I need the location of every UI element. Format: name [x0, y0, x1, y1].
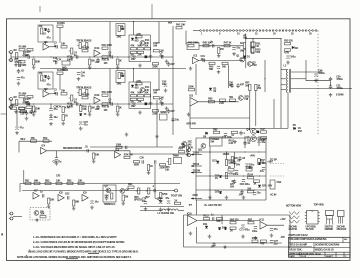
resistor R90 — [122, 195, 128, 201]
resistor R117 (ch1) — [153, 49, 163, 52]
svg-text:+40V: +40V — [250, 154, 256, 157]
ground c73 — [270, 234, 274, 238]
svg-text:1M: 1M — [13, 49, 16, 52]
svg-text:56K: 56K — [137, 45, 142, 48]
capacitor C110 (ch1) — [167, 62, 175, 67]
mixer box — [187, 43, 199, 50]
capacitor C200 (ch2) — [22, 98, 28, 105]
svg-text:B+ ADJ 470 50V: B+ ADJ 470 50V — [205, 204, 223, 207]
label b+ gnd2 — [189, 204, 193, 207]
svg-text:1K: 1K — [230, 229, 233, 232]
bias network box (ch2) — [38, 72, 53, 89]
svg-text:Q12: Q12 — [180, 146, 185, 149]
capacitor C207 (ch2) — [131, 103, 136, 108]
wire out v274 — [273, 99, 275, 128]
label rect board — [210, 138, 219, 144]
svg-text:220K: 220K — [152, 65, 158, 68]
capacitor C79 — [211, 213, 214, 220]
svg-text:BOTTOM VIEW: BOTTOM VIEW — [286, 206, 302, 208]
wire b+ v258 — [258, 136, 260, 146]
svg-text:47u: 47u — [165, 197, 170, 200]
note underline 5 — [66, 257, 78, 260]
resistor R110 — [252, 237, 258, 242]
svg-text:TO V2: TO V2 — [193, 163, 200, 166]
svg-text:10K: 10K — [56, 179, 61, 182]
IC pinout UPC1188 — [305, 211, 320, 232]
svg-text:C84 100u: C84 100u — [240, 183, 251, 186]
treble pot VR22 (ch2) — [76, 86, 86, 95]
svg-text:100u: 100u — [157, 197, 163, 200]
svg-text:R18 1K: R18 1K — [102, 58, 110, 61]
svg-text:IC10: IC10 — [187, 213, 193, 216]
capacitor C78 — [210, 242, 215, 248]
svg-text:50V: 50V — [230, 186, 235, 189]
capacitor C37 — [79, 121, 88, 127]
label right col a — [267, 160, 273, 163]
node b+ j1 — [209, 151, 259, 152]
svg-text:IC11: IC11 — [259, 219, 264, 222]
svg-text:R10 100K: R10 100K — [102, 91, 113, 94]
resistor R112 (ch1) — [117, 25, 124, 38]
svg-text:3. ALL VOLTAGES MEASURED WITH: 3. ALL VOLTAGES MEASURED WITH NO SIGNAL … — [33, 245, 116, 249]
wire drv v190 — [189, 106, 191, 128]
diode D3 — [209, 87, 217, 93]
wire eq signal — [47, 150, 130, 152]
wire drop x80 — [80, 104, 82, 106]
capacitor C65 — [152, 185, 155, 192]
diode D11 — [203, 223, 208, 228]
svg-text:4.7K: 4.7K — [57, 59, 62, 62]
switch cluster box (ch2) — [129, 82, 151, 109]
wire connector dashed — [199, 30, 318, 32]
resistor R210 (ch2) — [102, 91, 113, 96]
ground r92 — [159, 199, 163, 203]
ground b+ 3 — [242, 196, 246, 200]
svg-text:R65: R65 — [213, 128, 218, 131]
capacitor C30b — [155, 160, 156, 163]
resistor R107 (ch1) — [61, 43, 67, 48]
wire chain vert up — [23, 170, 25, 184]
svg-text:BASS: BASS — [85, 39, 92, 42]
ground c42a — [17, 82, 21, 86]
switch cluster box (ch1) — [129, 35, 151, 62]
resistor R216b (ch2) — [130, 98, 136, 103]
resistor R76 — [147, 165, 153, 171]
resistor R114 (ch1) — [130, 45, 136, 50]
svg-text:TITLE GA-30 AMP: TITLE GA-30 AMP — [289, 243, 307, 246]
capacitor C58 — [222, 133, 233, 139]
ground jack (ch1) — [14, 63, 18, 67]
ground c51 — [286, 61, 290, 65]
svg-text:IC1b: IC1b — [94, 47, 100, 50]
wire chain box left — [19, 184, 21, 193]
transistor pinout 2SD718 — [325, 211, 334, 232]
diode D2 — [292, 46, 299, 50]
diode D5 — [293, 124, 303, 133]
resistor R32 — [19, 107, 25, 109]
title block frame — [289, 237, 351, 257]
ground psu mid — [223, 245, 227, 249]
svg-text:R10 100K: R10 100K — [102, 44, 113, 47]
wire ch signal bus (ch2) — [11, 103, 152, 105]
input jack J2 (ch2) — [8, 98, 12, 109]
svg-text:56K: 56K — [11, 104, 16, 107]
svg-text:1S953: 1S953 — [223, 153, 230, 156]
capacitor C102 (ch1) — [47, 28, 52, 39]
wire vert x228 — [228, 65, 230, 88]
svg-text:REV: REV — [21, 138, 26, 141]
resistor R103 (ch1) — [33, 59, 41, 65]
wire ic3 out — [199, 60, 243, 62]
svg-text:1S: 1S — [213, 90, 216, 93]
svg-text:D23: D23 — [215, 190, 220, 193]
diode D1 — [243, 55, 250, 58]
svg-text:470K: 470K — [162, 193, 168, 196]
transistor Q5 power — [246, 136, 256, 142]
wire b+ top — [196, 137, 266, 139]
resistor R96 — [230, 227, 236, 232]
ground c72 — [254, 236, 258, 240]
note line 5 — [17, 255, 132, 259]
resistor R110 (ch1) — [102, 44, 113, 49]
capacitor C104 (ch1) — [74, 51, 78, 58]
resistor R211 (ch2) — [117, 106, 122, 112]
resistor R57 — [245, 82, 251, 91]
svg-text:-15V: -15V — [280, 236, 285, 239]
wire eq box top — [19, 140, 52, 142]
capacitor C30 — [140, 157, 145, 164]
capacitor C31m — [201, 55, 206, 62]
capacitor C74b — [142, 197, 147, 204]
title block line3a — [289, 250, 302, 252]
capacitor C36 — [49, 116, 58, 120]
capacitor C63 — [90, 201, 99, 204]
ground pot (ch1) — [70, 56, 74, 60]
svg-text:4.7K: 4.7K — [136, 33, 141, 36]
wire b+ left vert — [195, 138, 197, 200]
svg-text:R41 10K: R41 10K — [176, 24, 185, 27]
svg-text:1S: 1S — [84, 113, 87, 116]
svg-text:LED: LED — [148, 103, 153, 106]
svg-text:R112: R112 — [203, 215, 209, 218]
rectifier board box — [210, 137, 223, 146]
diode D14 — [224, 228, 227, 230]
resistor R71 — [31, 137, 37, 142]
svg-text:4.7K: 4.7K — [65, 107, 70, 110]
svg-text:1M: 1M — [125, 196, 128, 199]
wire drv h118 — [190, 117, 250, 119]
resistor R112 — [203, 215, 209, 220]
svg-text:R97: R97 — [248, 219, 253, 222]
svg-text:10K: 10K — [61, 90, 66, 93]
label right col b — [267, 184, 272, 187]
wire reverb to psu — [155, 164, 162, 202]
svg-text:470P: 470P — [22, 55, 28, 58]
svg-text:1M: 1M — [39, 72, 42, 75]
ground mid2 — [155, 135, 159, 139]
svg-text:D25: D25 — [262, 184, 267, 187]
wire psu feed upper — [140, 206, 184, 208]
ground pot (ch2) — [70, 103, 74, 107]
svg-text:+15V: +15V — [280, 218, 286, 221]
wire out h78 — [291, 78, 306, 80]
wire psu bottom — [184, 246, 291, 248]
svg-text:TANK: TANK — [173, 154, 180, 157]
ground r88 — [72, 207, 76, 211]
resistor R95 — [230, 219, 239, 224]
svg-text:MODEL GA-30 1/3: MODEL GA-30 1/3 — [315, 249, 334, 252]
ground c34 — [25, 117, 29, 121]
ground r11 (ch1) — [116, 66, 120, 70]
ground c36 — [49, 122, 53, 126]
svg-text:R95 220: R95 220 — [230, 219, 239, 222]
svg-text:1M: 1M — [27, 50, 30, 53]
ground c39 — [232, 52, 236, 56]
sheet zone tick top — [151, 4, 153, 19]
resistor R100 (ch1) — [27, 49, 33, 54]
capacitor C62 — [65, 193, 70, 200]
svg-text:100u: 100u — [233, 173, 239, 176]
op-amp IC2a (ch2) — [43, 88, 49, 97]
wire offboard b — [270, 175, 284, 177]
wire ch input vertical (ch2) — [10, 99, 12, 109]
diode D10 (ch1) — [43, 29, 47, 36]
resistor R45 — [203, 42, 212, 47]
wire b+ to psu — [196, 200, 198, 215]
wire psu right vert — [289, 215, 291, 247]
resistor R77 — [160, 164, 166, 170]
wire b+ v226.5 — [226, 152, 228, 160]
wire b+ v244 — [244, 136, 246, 148]
label psu plus — [280, 218, 286, 221]
wire bus tail (ch2) — [152, 103, 173, 105]
svg-text:APPR SCALE NONE DWG 130-52: APPR SCALE NONE DWG 130-52 — [289, 252, 321, 255]
resistor R202 (ch2) — [19, 93, 27, 98]
LED LD1 (ch1) — [145, 56, 153, 59]
capacitor C90 — [231, 179, 236, 184]
svg-text:10u: 10u — [201, 58, 206, 61]
wire choke bottom — [287, 93, 289, 129]
svg-text:IC2b: IC2b — [94, 94, 100, 97]
ground jack (ch2) — [14, 110, 18, 114]
svg-text:47K: 47K — [130, 92, 135, 95]
label b+ a — [229, 139, 235, 145]
resistor R93 — [40, 213, 46, 218]
wire drv out — [199, 101, 239, 103]
capacitor C201 (ch2) — [25, 98, 30, 106]
resistor R109 (ch1) — [89, 59, 96, 65]
wire ch signal bus (ch1) — [11, 56, 152, 58]
svg-text:47u: 47u — [21, 77, 26, 80]
resistor R66 — [231, 131, 237, 137]
svg-text:R55 220: R55 220 — [284, 40, 293, 43]
capacitor C101 (ch1) — [25, 51, 30, 59]
resistor R97 — [248, 219, 254, 224]
ground r76 — [147, 171, 151, 175]
resistor R74b — [116, 143, 122, 148]
capacitor C41a — [17, 69, 25, 74]
pot VR7 depth — [145, 188, 150, 199]
note line 4 — [29, 250, 139, 254]
svg-text:TOP VIEW: TOP VIEW — [314, 205, 325, 207]
wire pa h — [246, 38, 281, 40]
resistor R81c — [25, 179, 31, 184]
bass pot VR13 (ch1) — [84, 39, 92, 48]
fuse box F2 — [62, 61, 70, 72]
title block line4 — [289, 252, 321, 255]
svg-text:TREMOLO: TREMOLO — [104, 203, 116, 206]
capacitor C43a — [53, 57, 58, 64]
connection arrow tag 1 — [191, 151, 202, 155]
ground ic6 — [187, 113, 191, 117]
wire b+ h190 — [196, 189, 266, 191]
resistor R43 — [209, 62, 215, 71]
output choke L2 — [284, 65, 291, 93]
resistor R114 — [174, 199, 180, 204]
svg-text:100u: 100u — [290, 55, 296, 58]
wire opamp out (ch2) — [49, 93, 56, 95]
svg-text:1K: 1K — [240, 42, 243, 45]
wire psu top — [184, 214, 291, 216]
capacitor C75b — [157, 197, 163, 204]
resistor R101 (ch1) — [13, 49, 18, 59]
svg-text:R1 68K: R1 68K — [19, 46, 27, 49]
ground c28 — [55, 162, 59, 166]
capacitor C56 — [229, 81, 234, 88]
resistor R116b (ch1) — [130, 51, 136, 56]
svg-text:LED: LED — [148, 56, 153, 59]
ground c9 (ch2) — [165, 107, 169, 111]
volume pot VR11 (ch1) — [67, 48, 73, 61]
resistor R78 — [179, 148, 185, 153]
transistor Q1 — [236, 54, 244, 62]
ground ic10 — [189, 232, 193, 236]
ground sw (ch1) — [138, 64, 142, 68]
resistor R79 — [186, 146, 193, 152]
svg-text:GND: GND — [193, 194, 199, 197]
wire choke tap1 — [281, 78, 286, 80]
capacitor C76b — [165, 197, 170, 204]
svg-text:2.2K: 2.2K — [229, 142, 234, 145]
resistor R216c (ch2) — [137, 98, 143, 103]
op-amp IC3 — [193, 55, 199, 64]
svg-text:10P: 10P — [229, 84, 234, 87]
resistor R55 — [284, 40, 293, 45]
svg-text:56K: 56K — [240, 50, 245, 53]
connection arrow tag 4 — [191, 194, 202, 199]
wire sw vert b (ch2) — [158, 69, 160, 90]
resistor R212 (ch2) — [117, 72, 124, 85]
svg-text:FOOT SW: FOOT SW — [171, 195, 183, 198]
wire psu left vert — [183, 215, 185, 247]
svg-text:1M: 1M — [27, 97, 30, 100]
wire mid vertical (ch1) — [109, 22, 111, 57]
connection arrow tag 2 — [191, 163, 202, 167]
svg-text:50KB: 50KB — [62, 69, 68, 72]
wire chain tail — [105, 190, 174, 192]
label top view — [314, 205, 325, 207]
wire ch2 down v157 — [156, 100, 158, 147]
svg-text:56K: 56K — [75, 201, 80, 204]
svg-text:56K: 56K — [209, 68, 214, 71]
diode D31 — [79, 113, 86, 116]
wire b+ h152 — [196, 151, 266, 153]
svg-text:1K: 1K — [119, 60, 122, 63]
svg-text:10u: 10u — [131, 58, 136, 61]
svg-text:47K: 47K — [189, 147, 194, 150]
svg-text:R18 1K: R18 1K — [102, 105, 110, 108]
resistor R85 — [67, 179, 73, 184]
resistor R62 — [229, 96, 235, 101]
resistor R118 (ch1) — [102, 56, 110, 62]
svg-text:R 220K: R 220K — [57, 22, 65, 25]
wire fb vertical (ch2) — [59, 74, 61, 90]
ground input (ch1) — [32, 66, 36, 70]
ground r46 — [217, 54, 221, 58]
wire box drop (ch2) — [45, 89, 47, 91]
resistor R214 (ch2) — [130, 92, 136, 97]
bias network box (ch1) — [38, 25, 53, 42]
capacitor C50b — [329, 84, 343, 90]
capacitor C83 — [233, 159, 241, 165]
ground r73 — [92, 160, 96, 164]
svg-text:NO.: NO. — [344, 239, 348, 241]
input jack J1 (ch1) — [8, 51, 12, 62]
wire mixer down — [195, 64, 197, 95]
resistor R108 — [228, 166, 234, 171]
note triangle 5 — [25, 255, 28, 258]
svg-text:4. NO LOAD CIRCUIT. FLYWHEEL B: 4. NO LOAD CIRCUIT. FLYWHEEL BRIDGE RATE… — [29, 250, 139, 254]
svg-text:PARTS LIST 130-52: PARTS LIST 130-52 — [289, 234, 309, 237]
resistor R67 — [258, 159, 266, 165]
capacitor C38 — [210, 40, 214, 47]
svg-text:10K: 10K — [61, 43, 66, 46]
svg-text:10u: 10u — [162, 83, 167, 86]
resistor R201 (ch2) — [13, 96, 18, 106]
wire fb vertical (ch1) — [59, 27, 61, 43]
resistor R59 — [188, 86, 194, 91]
resistor R219 (ch2) — [152, 110, 158, 116]
svg-text:SCHEMATIC DIAGRAM: SCHEMATIC DIAGRAM — [315, 244, 339, 247]
svg-text:8 OHM: 8 OHM — [336, 94, 343, 97]
svg-text:47P: 47P — [240, 83, 245, 86]
wire eq signal b — [130, 151, 190, 154]
resistor R37 — [14, 58, 21, 66]
label psu minus — [280, 236, 285, 239]
tremolo osc box — [103, 185, 116, 202]
capacitor C29b — [126, 146, 127, 149]
svg-text:ROLAND CORP OSAKA JAPAN INC: ROLAND CORP OSAKA JAPAN INC. — [289, 238, 327, 241]
label under bus 1 (ch2) — [57, 106, 62, 109]
wire mid vertical (ch2) — [109, 69, 111, 104]
pot VR6 speed — [134, 188, 142, 202]
resistor R82c — [34, 179, 40, 184]
svg-text:2. ALL CAPACITANCE VALUES IN U: 2. ALL CAPACITANCE VALUES IN UF MICROFAR… — [33, 240, 125, 244]
capacitor C210 (ch2) — [167, 109, 175, 114]
svg-text:1K: 1K — [150, 165, 153, 168]
capacitor C40 — [171, 117, 179, 122]
svg-text:1M: 1M — [39, 25, 42, 28]
op-amp regulator IC10 — [187, 213, 197, 226]
resistor R215 (ch2) — [137, 92, 143, 97]
svg-text:47u: 47u — [47, 84, 52, 87]
svg-text:BASS: BASS — [85, 86, 92, 89]
ground r9 (ch1) — [88, 66, 92, 70]
transistor Q3 — [239, 95, 250, 101]
wire sw vert b (ch1) — [158, 22, 160, 43]
resistor R83 — [45, 179, 51, 184]
ground b+ 2 — [225, 196, 229, 200]
